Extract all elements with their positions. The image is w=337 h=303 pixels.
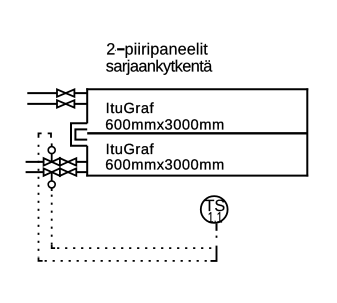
svg-text:ItuGraf: ItuGraf bbox=[106, 142, 155, 158]
valve V6 on pipe 4 bbox=[60, 168, 76, 175]
control dashed vertical left bbox=[38, 145, 40, 257]
svg-text:600mmx3000mm: 600mmx3000mm bbox=[105, 158, 224, 174]
svg-text:ItuGraf: ItuGraf bbox=[106, 101, 155, 117]
control dashed to TS bbox=[216, 236, 218, 244]
panel left edge lower segment bbox=[86, 146, 88, 177]
control dashed horizontal upper bbox=[57, 247, 215, 249]
actuator tick lower bbox=[51, 188, 53, 191]
pipe 3 bbox=[26, 161, 88, 163]
svg-text:600mmx3000mm: 600mmx3000mm bbox=[105, 117, 224, 133]
valve V1 on pipe 1 bbox=[57, 89, 74, 96]
control dashed horizontal lower bbox=[45, 260, 210, 262]
actuator tick upper bbox=[51, 143, 53, 146]
svg-text:sarjaankytkentä: sarjaankytkentä bbox=[106, 58, 213, 76]
valve V4 on pipe 3 bbox=[60, 158, 76, 165]
svg-text:1.1: 1.1 bbox=[208, 209, 223, 226]
valve V5 (actuated) on pipe 4 bbox=[44, 168, 60, 175]
actuator circle lower bbox=[48, 181, 55, 188]
panel left edge upper segment bbox=[86, 88, 88, 123]
TS stem tick bbox=[216, 224, 218, 231]
panel right edge bbox=[306, 88, 308, 176]
sensor TS1.1 circle bbox=[201, 196, 228, 223]
panel divider P1/P2 bbox=[87, 132, 307, 134]
actuator circle upper bbox=[48, 147, 55, 154]
valve V3 (actuated) on pipe 3 bbox=[44, 158, 60, 165]
control corner bottom left bbox=[39, 258, 43, 261]
control corner mark left bbox=[39, 133, 42, 137]
title dash cover bbox=[116, 49, 125, 52]
series loop inner bbox=[75, 129, 87, 139]
title dash stroke bbox=[117, 48, 124, 50]
actuator stem lower bbox=[51, 172, 53, 181]
valve V2 on pipe 2 bbox=[57, 100, 74, 107]
control junction at TS bbox=[211, 246, 217, 261]
control dashed vertical from lower actuator bbox=[51, 195, 53, 245]
control corner mark right (above upper actuator) bbox=[48, 133, 51, 137]
panel P1 top edge bbox=[86, 88, 308, 90]
panel P2 bottom edge bbox=[86, 175, 308, 177]
control corner at lower actuator line bbox=[52, 245, 55, 248]
series loop outer bbox=[71, 123, 87, 146]
pipe 4 bbox=[26, 171, 88, 173]
actuator stem upper bbox=[51, 153, 53, 162]
pipe 2 bbox=[27, 103, 87, 105]
pipe 1 bbox=[27, 92, 87, 94]
